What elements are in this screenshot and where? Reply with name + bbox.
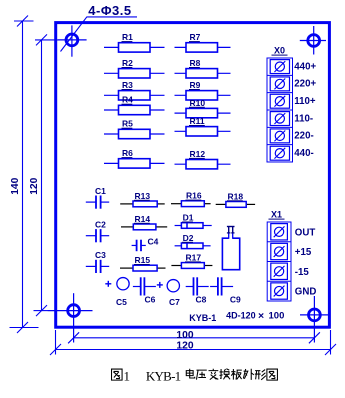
svg-text:R18: R18 [228,191,244,201]
svg-text:110+: 110+ [294,96,316,107]
svg-text:+15: +15 [295,247,312,258]
svg-text:C3: C3 [95,250,106,260]
svg-text:KYB-1: KYB-1 [146,369,181,384]
svg-text:X0: X0 [274,46,285,56]
svg-text:R12: R12 [190,149,206,159]
svg-text:×: × [258,310,264,322]
svg-text:OUT: OUT [295,227,316,238]
svg-text:-15: -15 [295,267,310,278]
svg-text:D2: D2 [183,233,194,243]
svg-text:4D-120: 4D-120 [226,311,256,321]
svg-text:220-: 220- [294,131,313,142]
svg-text:R17: R17 [186,252,202,262]
svg-text:100: 100 [176,330,193,341]
svg-text:440-: 440- [294,148,313,159]
svg-text:R16: R16 [186,191,202,201]
svg-text:R10: R10 [190,98,206,108]
svg-text:R4: R4 [122,95,133,105]
svg-text:X1: X1 [271,210,282,220]
svg-text:110-: 110- [294,113,313,124]
svg-text:100: 100 [269,311,285,322]
svg-text:1: 1 [124,369,131,384]
svg-text:D1: D1 [183,213,194,223]
svg-text:R3: R3 [122,80,133,90]
svg-text:140: 140 [10,177,21,194]
svg-text:R1: R1 [122,32,133,42]
svg-text:C9: C9 [230,295,241,305]
svg-text:440+: 440+ [294,61,316,72]
svg-text:C1: C1 [95,186,106,196]
svg-text:R2: R2 [122,58,133,68]
svg-text:GND: GND [295,287,317,298]
svg-text:KYB-1: KYB-1 [189,313,216,323]
svg-text:C8: C8 [196,295,207,305]
svg-text:R7: R7 [190,32,201,42]
svg-text:R11: R11 [190,116,205,126]
svg-text:C2: C2 [95,220,106,230]
svg-text:R14: R14 [135,214,151,224]
svg-text:C5: C5 [116,297,127,307]
svg-text:R6: R6 [122,148,133,158]
svg-text:R9: R9 [190,80,201,90]
svg-text:C6: C6 [145,295,156,305]
svg-text:R15: R15 [135,255,151,265]
svg-text:R13: R13 [135,191,151,201]
svg-text:120: 120 [176,341,193,352]
svg-text:R5: R5 [122,119,133,129]
svg-text:R8: R8 [190,58,201,68]
svg-text:4-Φ3.5: 4-Φ3.5 [88,3,131,18]
svg-text:C7: C7 [169,297,180,307]
svg-text:120: 120 [29,177,40,194]
svg-text:C4: C4 [148,237,159,247]
svg-text:220+: 220+ [294,79,316,90]
